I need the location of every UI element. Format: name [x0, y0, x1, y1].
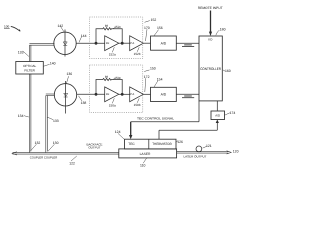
svg-text:LASER OUTPUT: LASER OUTPUT	[184, 155, 207, 159]
svg-text:110: 110	[140, 163, 146, 167]
svg-text:134: 134	[18, 114, 24, 118]
svg-text:130: 130	[53, 141, 59, 145]
svg-text:152c: 152c	[114, 25, 121, 29]
svg-text:A/D: A/D	[161, 42, 167, 46]
svg-text:152b: 152b	[134, 52, 141, 56]
svg-text:Rx: Rx	[106, 92, 110, 96]
svg-text:CONTROLLER: CONTROLLER	[200, 67, 221, 71]
svg-text:144: 144	[81, 34, 87, 38]
svg-text:Rf: Rf	[105, 24, 108, 28]
svg-text:A/D: A/D	[161, 93, 167, 97]
svg-text:I/O: I/O	[208, 38, 213, 42]
svg-text:150b: 150b	[134, 103, 141, 107]
svg-text:150: 150	[150, 67, 156, 71]
svg-text:152a: 152a	[109, 53, 116, 57]
svg-text:122: 122	[69, 161, 75, 165]
svg-text:180: 180	[220, 28, 226, 32]
svg-text:TEC: TEC	[128, 142, 135, 146]
svg-text:A/D: A/D	[215, 114, 220, 118]
svg-text:133: 133	[53, 119, 59, 123]
svg-text:121: 121	[206, 144, 212, 148]
svg-text:150a: 150a	[109, 104, 116, 108]
svg-text:P A: P A	[130, 92, 134, 96]
svg-text:160: 160	[225, 69, 231, 73]
svg-text:124: 124	[115, 130, 121, 134]
svg-text:OUTPUT: OUTPUT	[88, 146, 101, 150]
svg-text:138: 138	[81, 101, 87, 105]
svg-text:COUPLER: COUPLER	[44, 156, 57, 160]
svg-text:140: 140	[50, 62, 56, 66]
svg-text:COUPLER: COUPLER	[30, 156, 43, 160]
svg-text:172: 172	[144, 75, 150, 79]
svg-text:156: 156	[157, 26, 163, 30]
svg-text:TEC CONTROL SIGNAL: TEC CONTROL SIGNAL	[137, 117, 174, 121]
svg-text:Rf: Rf	[105, 75, 108, 79]
svg-text:LASER: LASER	[140, 152, 151, 156]
svg-text:126: 126	[177, 140, 183, 144]
svg-text:152: 152	[151, 18, 157, 22]
svg-text:Rx: Rx	[106, 41, 110, 45]
svg-text:120: 120	[233, 149, 239, 153]
svg-text:135: 135	[18, 50, 24, 54]
svg-text:154: 154	[157, 77, 163, 81]
svg-text:THERMISTOR: THERMISTOR	[152, 142, 172, 146]
svg-text:150c: 150c	[114, 76, 121, 80]
svg-text:100: 100	[4, 25, 9, 29]
svg-text:REMOTE INPUT: REMOTE INPUT	[198, 6, 223, 10]
svg-text:142: 142	[58, 24, 64, 28]
svg-text:P A: P A	[130, 41, 134, 45]
svg-text:OPTICAL: OPTICAL	[23, 64, 37, 68]
svg-text:136: 136	[67, 72, 73, 76]
svg-text:FILTER: FILTER	[24, 69, 35, 73]
svg-text:132: 132	[35, 141, 41, 145]
svg-text:170: 170	[144, 26, 150, 30]
svg-text:174: 174	[230, 111, 236, 115]
